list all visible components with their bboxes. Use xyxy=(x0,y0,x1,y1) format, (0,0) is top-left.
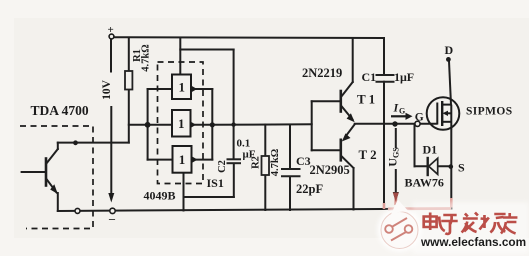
svg-text:IS1: IS1 xyxy=(207,176,224,190)
svg-text:2N2905: 2N2905 xyxy=(310,163,350,177)
svg-text:R2: R2 xyxy=(251,156,262,169)
svg-text:–: – xyxy=(108,212,116,226)
svg-text:C1: C1 xyxy=(362,70,377,84)
svg-text:T 2: T 2 xyxy=(359,147,377,162)
svg-text:www.elecfans.com: www.elecfans.com xyxy=(420,235,526,249)
svg-text:D1: D1 xyxy=(423,143,438,157)
svg-text:T 1: T 1 xyxy=(357,92,375,107)
svg-text:1: 1 xyxy=(178,80,185,95)
svg-text:4049B: 4049B xyxy=(144,189,176,203)
svg-text:1: 1 xyxy=(179,152,186,167)
svg-text:G: G xyxy=(415,112,424,124)
svg-text:TDA 4700: TDA 4700 xyxy=(31,103,89,118)
svg-text:+: + xyxy=(108,24,114,36)
svg-text:4.7kΩ: 4.7kΩ xyxy=(270,149,281,176)
svg-text:S: S xyxy=(458,161,465,175)
svg-text:D: D xyxy=(445,43,454,57)
svg-text:1μF: 1μF xyxy=(394,70,414,84)
svg-text:10V: 10V xyxy=(101,79,113,100)
svg-text:SIPMOS: SIPMOS xyxy=(466,106,513,118)
svg-text:22pF: 22pF xyxy=(296,182,323,196)
svg-text:BAW76: BAW76 xyxy=(405,176,444,190)
svg-text:2N2219: 2N2219 xyxy=(302,66,342,80)
svg-text:1: 1 xyxy=(178,116,185,131)
svg-text:C3: C3 xyxy=(296,154,311,168)
svg-text:4.7kΩ: 4.7kΩ xyxy=(141,44,152,71)
svg-text:C2: C2 xyxy=(217,160,228,173)
svg-text:G: G xyxy=(399,107,405,116)
